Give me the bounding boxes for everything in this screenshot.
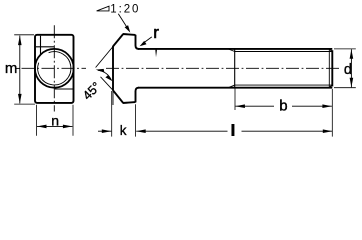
fillet leader arrowhead: [140, 41, 147, 46]
dimension m: label stub: [15, 67, 19, 69]
shank top line: [138, 48, 332, 50]
dimension b: dimension line left part: [235, 105, 274, 107]
svg-text:k: k: [120, 123, 127, 138]
svg-text:d: d: [344, 62, 352, 78]
45deg: extension of lower chamfer: [101, 77, 114, 91]
head right face lower + fillet r to shank bottom: [136, 88, 139, 103]
dimension d: dimension line with arrows: [350, 49, 352, 87]
svg-text:m: m: [5, 60, 18, 77]
shank circle d (thick): [35, 49, 74, 88]
end chamfer corner lower: [329, 85, 332, 88]
bolt end face: [331, 50, 333, 86]
svg-text:b: b: [279, 98, 287, 115]
dimension n: dimension line with arrows: [37, 125, 72, 127]
svg-text:n: n: [51, 113, 59, 129]
thread runout lower: [228, 85, 234, 88]
vertical centerline of front view: [53, 25, 55, 111]
45deg: extension of upper chamfer: [96, 47, 113, 68]
45deg: extension of head left face downward: [112, 91, 114, 106]
fillet leader line: [142, 37, 152, 44]
svg-text:1:20: 1:20: [110, 3, 140, 15]
square neck left edge (upper part): [40, 36, 42, 55]
end chamfer line: [328, 49, 330, 87]
horizontal centerline of front view: [22, 67, 87, 69]
dimension d: extension line bottom: [334, 87, 356, 89]
45deg: arc arrowhead left: [96, 69, 105, 73]
shank bottom line: [138, 87, 332, 89]
dimension b: extension line at thread start: [234, 89, 236, 111]
head left face: [112, 46, 114, 91]
square neck top edge (left half): [36, 46, 54, 48]
dimension m: extension line bottom: [14, 103, 35, 105]
dimension b: dimension line right part: [292, 105, 332, 107]
svg-text:r: r: [153, 23, 159, 42]
taper leader line: [118, 14, 127, 28]
dimension l: dimension line right part: [242, 130, 333, 132]
thread root circle (thin, with gap at upper left): [38, 52, 71, 85]
head upper 45deg chamfer: [113, 34, 123, 46]
thread root line lower: [235, 84, 333, 86]
head bottom taper 1:20: [123, 101, 136, 104]
end chamfer corner upper: [329, 49, 332, 52]
taper leader arrowhead: [125, 24, 130, 32]
dimension k: extension line left: [111, 91, 113, 137]
svg-text:l: l: [231, 123, 235, 140]
dimension m: dimension line with arrows: [19, 36, 21, 104]
dimension d: extension line top: [334, 48, 356, 50]
dimension k: extension line right (shared with l): [135, 104, 137, 136]
dimension n: extension line right: [72, 105, 74, 136]
dimension k: arrow line left: [98, 130, 111, 132]
square neck end edge: [155, 50, 157, 58]
45deg: arc arrowhead right: [105, 75, 112, 81]
extension line at bolt end (for l): [331, 89, 333, 137]
head right face upper + fillet r to shank top: [136, 35, 139, 49]
dimension l: dimension line left part: [136, 130, 227, 132]
head lower 45deg chamfer: [113, 90, 123, 103]
taper symbol triangle: [97, 6, 109, 11]
axis centerline: [106, 67, 341, 69]
thread root line upper: [235, 51, 333, 53]
thread runout upper: [228, 49, 234, 52]
square neck bottom edge (right half): [55, 88, 74, 90]
45deg: dimension arc: [98, 70, 112, 80]
head top taper 1:20: [123, 33, 136, 36]
thread start boundary: [234, 49, 236, 87]
dimension m: extension line top: [14, 34, 34, 36]
head outline rectangle (n wide, m tall): [35, 35, 74, 103]
dimension n: extension line left: [35, 105, 37, 136]
